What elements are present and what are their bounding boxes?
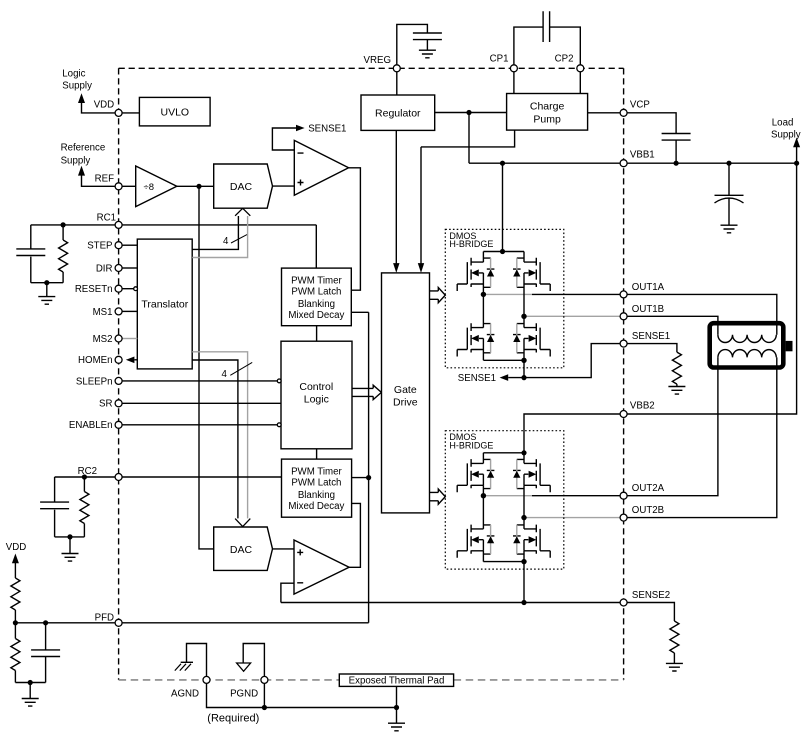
DMOS H-bridge 1	[445, 229, 564, 367]
wire: PFD pin to PWM blocks (vertical distribution)	[122, 312, 368, 623]
wire: SENSE1 internal line to pin	[508, 344, 620, 378]
svg-text:Logic: Logic	[304, 394, 329, 406]
node SENSE1 line junction	[521, 375, 526, 380]
comparator A2	[294, 540, 349, 594]
wire: Charge Pump bottom to Gate Drive (arrow)	[418, 130, 515, 273]
svg-text:Gate: Gate	[394, 384, 417, 396]
svg-text:Blanking: Blanking	[298, 490, 335, 501]
block Translator	[137, 239, 192, 369]
svg-text:VBB2: VBB2	[630, 401, 655, 412]
power ground symbol (PGND open arrow)	[237, 663, 251, 671]
svg-text:PWM Latch: PWM Latch	[291, 478, 341, 489]
node PGND rail junction	[262, 705, 267, 710]
pin VREG	[393, 65, 400, 72]
wire: CP2 to Charge Pump	[579, 72, 581, 94]
bus width marker 4 (upper)	[223, 235, 247, 247]
wire: RESETn to Translator (inverting bubble)	[122, 287, 137, 291]
wire: OUT1A pin to motor winding 1	[627, 294, 777, 334]
wire: MS2 to Translator (gray)	[122, 338, 137, 340]
capacitor C-VCP to VBB1	[627, 113, 690, 163]
wire: OUT2B pin to motor winding 2	[627, 357, 777, 517]
wire: REF vertical down to DAC2	[199, 186, 214, 549]
wire: div8 output to DAC1	[177, 185, 214, 187]
wire: VBB1 down to H-bridge 1	[502, 163, 504, 251]
wire: VBB1 line	[469, 162, 797, 164]
pin STEP	[115, 242, 122, 249]
node H-bridge 2 supply	[521, 450, 526, 455]
capacitor C-VREG to ground	[397, 24, 442, 64]
wire: OUT1A to pin	[532, 293, 620, 295]
block Gate Drive	[382, 273, 430, 513]
svg-text:(Required): (Required)	[207, 713, 259, 725]
resistor R-SENSE2	[627, 603, 679, 664]
DAC U2	[214, 527, 273, 570]
svg-text:Charge: Charge	[530, 100, 565, 112]
svg-text:REF: REF	[95, 173, 114, 184]
block Regulator	[361, 95, 435, 130]
wire: Control Logic bottom to PWM2	[316, 449, 318, 459]
wire: comparator A1 output to PWM1	[349, 168, 361, 290]
svg-text:SENSE2: SENSE2	[632, 590, 670, 601]
pin ENABLEn	[115, 421, 122, 428]
svg-text:Blanking: Blanking	[298, 299, 335, 310]
bus width marker 4 (lower)	[222, 362, 253, 380]
wire: PFD pin to external divider	[15, 622, 115, 624]
svg-text:Logic: Logic	[62, 69, 85, 80]
svg-text:VREG: VREG	[364, 55, 391, 66]
svg-text:PFD: PFD	[95, 613, 114, 624]
svg-text:VCP: VCP	[630, 99, 650, 110]
svg-text:OUT2B: OUT2B	[632, 505, 664, 516]
wire: H-bridge 2 bottom to SENSE2 line	[523, 562, 525, 603]
svg-text:DAC: DAC	[230, 181, 253, 193]
pin PFD	[115, 619, 122, 626]
svg-text:VDD: VDD	[94, 100, 114, 111]
wire: PWM1 right output to PFD vertical	[351, 311, 368, 313]
svg-text:Mixed Decay: Mixed Decay	[288, 310, 344, 321]
svg-text:4: 4	[223, 236, 229, 247]
pin MS1	[115, 308, 122, 315]
wire: Logic Supply arrow to VDD pin	[78, 93, 115, 113]
resistor R-SENSE1	[627, 344, 681, 387]
wire: RC2 pin to PWM2	[122, 476, 281, 478]
svg-text:AGND: AGND	[171, 689, 199, 700]
svg-text:RESETn: RESETn	[75, 284, 113, 295]
wire: Regulator output down to VBB1 line	[468, 113, 470, 164]
wire: OUT2A to pin	[532, 495, 620, 497]
wire: OUT2B gray to pin	[524, 517, 620, 519]
wire: Load Supply arrow	[793, 138, 800, 164]
wire: OUT1A gray segment	[483, 293, 532, 295]
wire: MS1 to Translator	[122, 310, 137, 312]
wire: Regulator bottom to Gate Drive (arrow)	[393, 130, 399, 273]
bus Translator to DAC2 (4 bits)	[192, 352, 250, 527]
node RC2 ground junction	[67, 534, 72, 539]
pin CP2	[577, 65, 584, 72]
svg-text:Translator: Translator	[141, 299, 188, 311]
node PWM2/PFD junction	[366, 475, 371, 480]
node PFD divider junction B	[43, 620, 48, 625]
node VBB1 load supply junction	[794, 161, 799, 166]
wire: H-bridge 1 bottom to SENSE1	[523, 360, 525, 377]
svg-text:RC2: RC2	[78, 466, 97, 477]
node thermal pad rail junction	[394, 705, 399, 710]
pin OUT2A	[620, 492, 627, 499]
wire: OUT2A pin to motor winding 2	[627, 357, 718, 495]
IC boundary dashed box (top/left/right edges)	[119, 68, 624, 680]
amp divide-by-8	[136, 166, 177, 207]
wire: PFD network bottom	[15, 682, 45, 684]
wire: DAC1 to comparator plus input	[273, 185, 295, 187]
svg-text:Supply: Supply	[61, 155, 91, 166]
wire: OUT2A gray segment	[483, 495, 532, 497]
wire: RC1 pin to external RC network	[31, 224, 115, 226]
wire: thermal pad to ground rail	[396, 686, 398, 707]
node RC1 ground junction	[44, 280, 49, 285]
wire: Reference Supply arrow to REF pin	[78, 166, 115, 187]
svg-text:OUT1A: OUT1A	[632, 282, 665, 293]
wire: SENSE2 line	[281, 602, 620, 604]
pin VDD	[115, 109, 122, 116]
block UVLO	[139, 97, 210, 126]
wire: RC1 network bottom	[31, 282, 63, 284]
node RC1 network junction	[61, 222, 66, 227]
wire: RC2 pin to external RC network	[55, 476, 115, 478]
svg-text:Supply: Supply	[62, 81, 92, 92]
svg-text:CP1: CP1	[490, 54, 509, 65]
ground (R-SENSE2)	[666, 663, 683, 671]
capacitor C-RC2	[40, 477, 69, 537]
pin RC2	[115, 474, 122, 481]
pin AGND	[203, 676, 210, 683]
svg-text:PWM Timer: PWM Timer	[291, 275, 342, 286]
svg-text:SENSE1: SENSE1	[632, 331, 670, 342]
pin SR	[115, 400, 122, 407]
resistor R-RC1	[59, 225, 68, 283]
pin OUT2B	[620, 514, 627, 521]
svg-text:STEP: STEP	[87, 241, 112, 252]
wire: AGND/PGND common ground rail	[207, 684, 397, 708]
svg-text:UVLO: UVLO	[161, 106, 190, 118]
svg-text:Mixed Decay: Mixed Decay	[288, 501, 344, 512]
bus arrow Control Logic to Gate Drive	[352, 385, 381, 399]
ground (VBB1 cap)	[721, 225, 738, 233]
wire: PWM2 right output to PFD vertical	[352, 477, 369, 479]
wire: RC2 network bottom	[55, 536, 85, 538]
svg-text:÷8: ÷8	[144, 182, 155, 193]
block Charge Pump	[507, 94, 588, 131]
resistor R-PFD lower	[11, 623, 20, 683]
svg-text:Control: Control	[299, 381, 333, 393]
block PWM2 (PWM Timer/Latch/Blanking/Mixed Decay)	[282, 459, 352, 517]
wire: Charge Pump to VCP pin	[588, 112, 620, 114]
wire: DIR to Translator	[122, 267, 137, 269]
wire: SLEEPn to Control Logic (inverting bubble)	[122, 379, 281, 383]
capacitor C-PFD	[31, 623, 60, 683]
wire: comparator A2 output to PWM2	[349, 503, 360, 567]
label Reference Supply	[61, 143, 106, 167]
node RC2 network junction	[82, 474, 87, 479]
wire: CP1 to Charge Pump	[513, 72, 515, 94]
svg-text:MS1: MS1	[93, 307, 113, 318]
capacitor C-RC1	[16, 225, 45, 283]
svg-text:DAC: DAC	[230, 544, 253, 556]
node H-bridge 1 supply	[500, 249, 505, 254]
wire: PWM1 bottom to Control Logic	[316, 326, 318, 342]
bus Translator to DAC1 (4 bits)	[192, 208, 250, 257]
svg-text:HOMEn: HOMEn	[78, 355, 112, 366]
ground (PFD network)	[22, 683, 39, 707]
svg-text:OUT1B: OUT1B	[632, 304, 664, 315]
pin MS2	[115, 335, 122, 342]
svg-text:SENSE1: SENSE1	[308, 124, 346, 135]
svg-text:OUT2A: OUT2A	[632, 483, 665, 494]
wire: DAC2 to comparator A2 plus input	[273, 548, 295, 550]
wire: VDD pin to UVLO	[122, 112, 139, 114]
ground (thermal pad)	[388, 708, 405, 731]
node PFD divider junction A	[13, 620, 18, 625]
svg-text:PWM Timer: PWM Timer	[291, 466, 342, 477]
pin REF	[115, 183, 122, 190]
DAC U1	[214, 164, 273, 208]
motor stepper windings	[710, 323, 793, 367]
pin HOMEn	[115, 356, 122, 363]
svg-text:PWM Latch: PWM Latch	[291, 287, 341, 298]
node PFD ground junction	[28, 680, 33, 685]
wire: VDD arrow to divider	[12, 554, 19, 579]
ground (RC1 network)	[38, 283, 55, 305]
resistor R-PFD upper	[11, 578, 20, 623]
comparator A1	[294, 140, 348, 195]
wire: VREG pin to Regulator	[396, 72, 398, 95]
wire: AGND symbol	[187, 644, 207, 677]
svg-text:RC1: RC1	[97, 213, 116, 224]
svg-text:Exposed Thermal Pad: Exposed Thermal Pad	[349, 676, 445, 687]
wire: RC1 pin to PWM1 top	[122, 225, 316, 268]
pin VBB1	[620, 160, 627, 167]
pin SENSE1	[620, 340, 627, 347]
svg-text:Reference: Reference	[61, 143, 106, 154]
wire: REF pin to divider	[122, 185, 136, 187]
node VBB1 bridge supply junction	[500, 161, 505, 166]
wire: STEP to Translator	[122, 244, 137, 246]
signal ground (AGND)	[175, 662, 193, 670]
wire: comparator A1 minus feedback to SENSE1	[272, 125, 304, 150]
wire: VBB2 to H-bridge 2	[524, 414, 620, 453]
wire: VBB2 pin to Load Supply rail	[627, 163, 796, 414]
wire: OUT1B pin to motor winding 1	[627, 316, 718, 334]
label Logic Supply	[62, 69, 92, 92]
svg-text:PGND: PGND	[230, 689, 258, 700]
wire: PGND symbol	[243, 644, 264, 677]
pin DIR	[115, 265, 122, 272]
svg-text:VDD: VDD	[6, 542, 26, 553]
ground (R-SENSE1)	[668, 387, 685, 395]
wire: ENABLEn to Control Logic (inverting bubble)	[122, 423, 281, 427]
pin VCP	[620, 109, 627, 116]
svg-text:VBB1: VBB1	[630, 150, 655, 161]
block PWM1 (PWM Timer/Latch/Blanking/Mixed Decay)	[282, 268, 352, 326]
svg-text:SLEEPn: SLEEPn	[76, 376, 113, 387]
node Regulator output junction	[466, 110, 471, 115]
svg-text:MS2: MS2	[93, 334, 113, 345]
IC boundary bottom edge (gray dashed)	[119, 679, 624, 681]
node VBB1 bulk cap junction	[726, 161, 731, 166]
wire: SR to Control Logic	[122, 402, 281, 404]
capacitor C-VBB1 electrolytic	[715, 163, 744, 225]
arrow SENSE1 internal	[500, 374, 509, 381]
pin SLEEPn	[115, 377, 122, 384]
svg-text:DIR: DIR	[96, 263, 113, 274]
resistor R-RC2	[80, 477, 89, 537]
DMOS H-bridge 2	[445, 431, 564, 569]
pin VBB2	[620, 411, 627, 418]
pin OUT1A	[620, 291, 627, 298]
pin SENSE2	[620, 599, 627, 606]
svg-text:Pump: Pump	[533, 113, 561, 125]
pin CP1	[510, 65, 517, 72]
pin OUT1B	[620, 313, 627, 320]
wire: Translator to HOMEn pin (arrow)	[126, 357, 138, 364]
pin PGND	[261, 676, 268, 683]
wire: OUT1B gray to pin	[524, 315, 620, 317]
node VCP cap junction	[674, 161, 679, 166]
capacitor C-CP between CP1 and CP2	[514, 11, 580, 64]
block Exposed Thermal Pad	[339, 674, 453, 687]
block Control Logic	[281, 341, 352, 449]
svg-text:SR: SR	[99, 399, 112, 410]
ground (VREG cap)	[419, 50, 436, 58]
svg-text:4: 4	[222, 369, 228, 380]
bus arrow Gate Drive to H-bridge 2	[430, 489, 446, 504]
wire: comparator A2 minus feedback to SENSE2 line	[281, 583, 294, 602]
label Load Supply	[771, 117, 801, 140]
pin RC1	[115, 221, 122, 228]
svg-text:Load: Load	[772, 117, 794, 128]
svg-text:CP2: CP2	[555, 54, 574, 65]
svg-text:Regulator: Regulator	[375, 108, 421, 120]
ground (RC2 network)	[62, 537, 79, 561]
node REF bus junction	[196, 184, 201, 189]
wire: Regulator to Charge Pump	[435, 112, 507, 114]
svg-text:Drive: Drive	[393, 397, 418, 409]
pin RESETn	[115, 285, 122, 292]
svg-text:ENABLEn: ENABLEn	[69, 420, 113, 431]
node SENSE2 line junction	[521, 600, 526, 605]
bus arrow Gate Drive to H-bridge 1	[430, 288, 446, 303]
svg-text:SENSE1: SENSE1	[458, 373, 496, 384]
